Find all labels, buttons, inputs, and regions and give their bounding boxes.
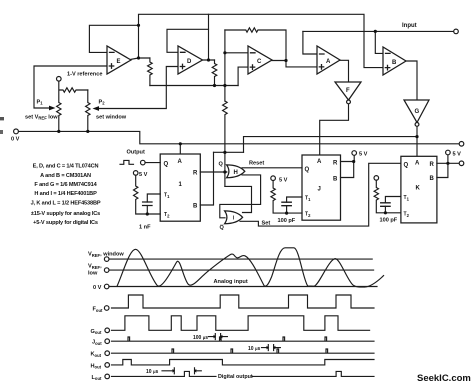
- level line V_REF window: [109, 258, 372, 260]
- svg-text:Q: Q: [305, 167, 310, 173]
- resistor: op-amp C feedback (horizontal): [225, 28, 286, 61]
- terminal: L out: [105, 374, 110, 379]
- svg-text:±15-V supply for analog ICs: ±15-V supply for analog ICs: [31, 211, 100, 217]
- wire: summing bus: [150, 85, 238, 87]
- parts list text block: [31, 164, 101, 227]
- J out trace with trigger ticks: [112, 337, 375, 341]
- terminal: F out: [104, 306, 109, 311]
- terminal: V_REF low: [104, 268, 109, 273]
- H out trace: [112, 360, 375, 365]
- svg-text:R: R: [193, 171, 198, 177]
- svg-text:100 pF: 100 pF: [278, 218, 296, 224]
- terminal: J out: [105, 339, 110, 344]
- svg-text:P1: P1: [37, 100, 44, 106]
- wire: op-amp A output to buffer F: [340, 60, 349, 82]
- svg-text:R: R: [333, 161, 338, 167]
- svg-text:D: D: [187, 59, 192, 65]
- svg-text:T2: T2: [164, 212, 170, 218]
- svg-text:Q: Q: [164, 162, 169, 168]
- svg-text:P2: P2: [99, 100, 106, 106]
- resistor from E output down to summing bus: [148, 58, 153, 86]
- svg-text:Q̅: Q̅: [220, 224, 225, 231]
- gate I: [225, 211, 243, 224]
- svg-text:R: R: [430, 162, 435, 168]
- G out trace: [112, 316, 370, 331]
- scan specks on left edge: [0, 117, 4, 120]
- svg-text:A and B = CM301AN: A and B = CM301AN: [40, 173, 91, 179]
- svg-text:A: A: [178, 159, 183, 165]
- analog input waveform: [117, 248, 384, 287]
- terminal: H out: [105, 363, 110, 368]
- terminal: right end of 0-V line: [459, 142, 464, 147]
- Output pulse glyph: [120, 160, 134, 164]
- wire: op-amp C + input to bus: [238, 67, 248, 85]
- K out trace with trigger ticks: [112, 349, 375, 353]
- svg-text:H: H: [234, 170, 238, 176]
- wire: buffer G output down to monostable K pin A: [416, 126, 418, 156]
- F out trace: [112, 295, 375, 308]
- svg-text:F: F: [346, 88, 350, 94]
- svg-text:F and G = 1/6 MM74C914: F and G = 1/6 MM74C914: [34, 182, 97, 188]
- op-amp C: [248, 46, 272, 74]
- wire: K pin R to right terminal and B tie: [437, 155, 459, 178]
- capacitor 100 pF (K): [385, 197, 401, 203]
- svg-text:Output: Output: [127, 150, 145, 156]
- wire: block1 B pin up to latch node line: [200, 152, 213, 205]
- wire: op-amp A - input to Input line: [303, 31, 317, 54]
- terminal: 0 V: [14, 129, 19, 134]
- terminal: Output: [141, 160, 146, 165]
- level line 0 V: [109, 286, 377, 288]
- wire: op-amp E output stub: [131, 25, 150, 59]
- wire: op-amp C - input column (feedback, bus, divider to latch node): [225, 30, 248, 101]
- svg-text:Digital output: Digital output: [218, 374, 253, 380]
- svg-text:10 μs: 10 μs: [248, 346, 261, 352]
- wire: gate H lower output loop to gate I input: [220, 175, 261, 218]
- svg-text:Gout: Gout: [91, 329, 102, 335]
- op-amp B: [383, 47, 406, 75]
- wire: op-amp D + input to P2 wiper: [99, 67, 178, 109]
- resistor C- column to latch node: [223, 101, 228, 186]
- svg-text:J, K and L = 1/2 HEF4538BP: J, K and L = 1/2 HEF4538BP: [31, 201, 101, 207]
- terminal: V_REF window: [104, 257, 109, 262]
- wire: gate H output to J pin Q (Reset): [242, 167, 302, 169]
- svg-text:J: J: [318, 187, 321, 193]
- svg-text:low: low: [88, 271, 98, 277]
- terminal: G out: [105, 328, 110, 333]
- svg-text:5 V: 5 V: [279, 178, 288, 184]
- svg-text:C: C: [257, 59, 262, 65]
- buffer F (inverting): [335, 82, 361, 100]
- svg-text:5 V: 5 V: [139, 172, 148, 178]
- svg-text:A: A: [317, 159, 322, 165]
- svg-text:1-V reference: 1-V reference: [67, 72, 102, 78]
- wire: op-amp B - input from Input line: [375, 31, 383, 53]
- svg-text:Kout: Kout: [91, 352, 102, 358]
- svg-text:B: B: [430, 176, 435, 182]
- arrowhead P1 wiper: [49, 106, 56, 111]
- svg-text:100 μs: 100 μs: [193, 335, 208, 341]
- terminal: P1 top: [57, 77, 62, 82]
- svg-text:0 V: 0 V: [11, 137, 20, 143]
- op-amp D: [178, 46, 203, 74]
- wire: J pin R / B tie to 5 V: [341, 155, 355, 177]
- waveform row labels: [88, 252, 124, 382]
- svg-text:Hout: Hout: [91, 363, 102, 369]
- svg-text:5 V: 5 V: [359, 152, 368, 158]
- potentiometer P1: [57, 81, 88, 131]
- terminal: 0 V level: [104, 284, 109, 289]
- terminal: Input: [454, 29, 459, 34]
- wire: top reference bus from op-amp E output to op-amp B + input: [139, 14, 384, 67]
- buffer G (inverting): [404, 100, 429, 123]
- svg-text:E: E: [117, 59, 121, 65]
- level line V_REF low: [109, 269, 374, 271]
- svg-text:T1: T1: [164, 193, 170, 199]
- wire: op-amp D feedback loop: [167, 29, 209, 52]
- svg-text:Reset: Reset: [249, 161, 264, 167]
- arrowhead P2 wiper: [93, 106, 100, 111]
- svg-text:5 V: 5 V: [453, 152, 462, 158]
- wire: block1 R pin to gate H input: [200, 171, 227, 173]
- svg-text:E, D, and C = 1/4 TL074CN: E, D, and C = 1/4 TL074CN: [33, 164, 99, 170]
- svg-text:A: A: [326, 59, 331, 65]
- svg-text:VREF,: VREF,: [88, 264, 102, 270]
- wire: block1 Q to Output terminal: [145, 162, 160, 164]
- 5V pullup network for block J: [271, 176, 276, 181]
- svg-text:Jout: Jout: [92, 340, 102, 346]
- op-amp E: [107, 46, 131, 74]
- svg-text:10 μs: 10 μs: [146, 369, 159, 375]
- capacitor 100 pF (J): [287, 197, 302, 202]
- 5V pullup network for block K: [374, 176, 379, 181]
- svg-text:0 V: 0 V: [93, 285, 102, 291]
- wire: gate I output to Set line and K pin Q: [240, 163, 401, 226]
- svg-text:VREF, window: VREF, window: [88, 252, 124, 258]
- monostable block 1: [160, 154, 200, 221]
- svg-text:B: B: [193, 204, 198, 210]
- wire: op-amp E + input to P1 wiper: [34, 66, 107, 108]
- svg-text:T1: T1: [305, 196, 311, 202]
- wire: Input line: [303, 30, 454, 32]
- svg-text:Analog input: Analog input: [214, 279, 248, 285]
- wire: 0-V rail and long line to right terminal: [18, 131, 459, 143]
- resistor from D output down to summing bus: [212, 60, 217, 86]
- svg-text:T2: T2: [305, 212, 311, 218]
- op-amp A: [317, 46, 340, 74]
- svg-text:G: G: [415, 109, 420, 115]
- svg-text:Q: Q: [219, 162, 224, 168]
- potentiometer P2: [86, 90, 90, 131]
- 5V pullup network for block 1: [133, 171, 138, 176]
- svg-text:A: A: [415, 161, 420, 167]
- svg-text:T2: T2: [404, 212, 410, 218]
- wire: op-amp C output to A + input: [272, 61, 317, 67]
- svg-text:Set: Set: [262, 221, 271, 227]
- svg-text:1 nF: 1 nF: [139, 225, 151, 231]
- svg-text:T1: T1: [404, 195, 410, 201]
- wire: latch column to gate I upper input: [225, 186, 252, 212]
- svg-text:Lout: Lout: [92, 375, 103, 381]
- svg-text:Input: Input: [402, 23, 417, 29]
- svg-text:set VREF low: set VREF low: [25, 115, 58, 121]
- svg-text:+5-V supply for digital ICs: +5-V supply for digital ICs: [33, 220, 98, 226]
- wire: op-amp E feedback loop: [89, 25, 138, 52]
- wire: latch node line: [214, 151, 244, 153]
- svg-text:Q: Q: [404, 163, 409, 169]
- wire: buffer F output to monostable J pin A: [320, 104, 349, 155]
- svg-text:Fout: Fout: [93, 307, 104, 313]
- wire: op-amp D output and tie to top bus: [203, 14, 215, 60]
- svg-text:B: B: [333, 177, 338, 183]
- gate H: [227, 165, 245, 178]
- monostable block J: [302, 155, 341, 220]
- junction dots: [137, 24, 140, 27]
- terminal: K out: [105, 351, 110, 356]
- monostable block K: [401, 156, 437, 223]
- svg-text:K: K: [416, 186, 421, 192]
- wire: monostable 1 pin A from 0-V line: [179, 144, 181, 154]
- svg-text:B: B: [392, 60, 397, 66]
- L out trace with 10 us pulses: [112, 371, 375, 376]
- svg-text:set window: set window: [96, 115, 127, 121]
- wire: op-amp B output to buffer G: [406, 61, 417, 100]
- capacitor 1 nF: [147, 194, 160, 202]
- wire: comparator line 1 (latch node to G output column): [244, 137, 418, 153]
- svg-text:H and I = 1/4 HEF4001BP: H and I = 1/4 HEF4001BP: [34, 191, 97, 197]
- svg-text:SeekIC.com: SeekIC.com: [417, 373, 471, 384]
- svg-text:100 pF: 100 pF: [380, 218, 398, 224]
